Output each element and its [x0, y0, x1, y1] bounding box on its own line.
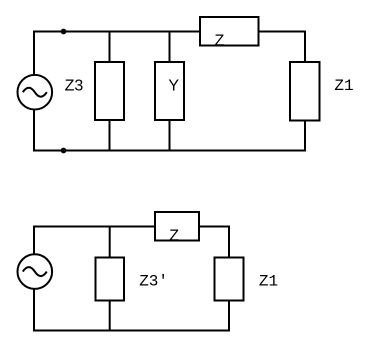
wire Z to Z1 (top circuit) [259, 32, 306, 63]
wire left vertical upper (bottom circuit) [33, 226, 35, 256]
sine symbol of source V1 [23, 88, 47, 97]
svg-text:Z: Z [169, 227, 179, 244]
impedance Z3 [95, 62, 124, 120]
wire Z3' bottom lead [109, 301, 111, 332]
wire Z3 top lead [109, 32, 111, 63]
wire Z to Z1 (bottom circuit) [199, 227, 229, 258]
svg-text:Z1: Z1 [334, 77, 353, 95]
wire Z1 bottom lead (bottom circuit) [228, 301, 230, 332]
wire left vertical lower (top circuit) [33, 109, 35, 152]
impedance Z (bottom circuit) [155, 212, 199, 241]
wire top rail (top circuit) [34, 31, 200, 33]
admittance Y [155, 62, 184, 120]
svg-text:Z3: Z3 [65, 77, 84, 94]
svg-text:Z3': Z3' [139, 272, 168, 290]
junction dot bottom rail [61, 148, 67, 154]
svg-text:Y: Y [168, 77, 179, 94]
wire Y top lead [169, 32, 171, 63]
wire Y bottom lead [169, 120, 171, 152]
wire Z1 bottom lead (top circuit) [304, 121, 306, 152]
wire bottom rail (bottom circuit) [34, 330, 230, 332]
sine symbol of source V2 [23, 267, 47, 276]
wire bottom rail (top circuit) [34, 150, 305, 152]
wire Z3 bottom lead [109, 120, 111, 152]
impedance Z3' [96, 258, 125, 301]
impedance Z (top circuit) [200, 17, 259, 46]
wire top rail (bottom circuit) [34, 226, 155, 228]
AC source V2 (bottom circuit) [18, 254, 53, 289]
wire left vertical lower (bottom circuit) [33, 289, 35, 332]
svg-text:Z: Z [215, 33, 225, 50]
junction dot top rail [61, 29, 67, 35]
impedance Z1 (top circuit) [290, 62, 320, 121]
impedance Z1 (bottom circuit) [215, 258, 244, 301]
svg-text:Z1: Z1 [259, 272, 278, 290]
wire Z3' top lead [109, 227, 111, 258]
AC source V1 (top circuit) [18, 75, 53, 110]
wire left vertical upper (top circuit) [33, 31, 35, 76]
